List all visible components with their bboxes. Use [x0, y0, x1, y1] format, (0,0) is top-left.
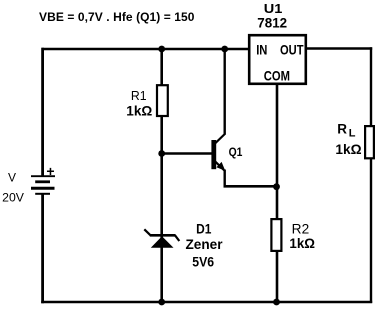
- wire right rail upper: [370, 47, 372, 126]
- wire OUT to right rail: [307, 47, 372, 49]
- node junction top R1: [158, 46, 165, 53]
- transistor Q1: [211, 134, 225, 172]
- wire left rail upper: [41, 48, 44, 176]
- wire R1 branch upper: [160, 49, 163, 85]
- wire R1 to zener to bottom: [160, 116, 163, 302]
- svg-text:OUT: OUT: [280, 42, 304, 57]
- svg-text:Q1: Q1: [229, 145, 243, 159]
- svg-text:V: V: [8, 171, 16, 185]
- node junction emitter-COM: [273, 183, 280, 190]
- svg-text:1kΩ: 1kΩ: [335, 142, 361, 157]
- svg-text:1kΩ: 1kΩ: [126, 103, 152, 118]
- wire bottom rail: [41, 301, 372, 304]
- wire right rail lower: [370, 158, 372, 303]
- svg-text:20V: 20V: [2, 190, 24, 204]
- svg-text:Zener: Zener: [186, 237, 224, 252]
- resistor RL: [365, 126, 374, 158]
- battery V: [31, 176, 55, 194]
- svg-text:1kΩ: 1kΩ: [289, 236, 315, 251]
- svg-text:R2: R2: [292, 221, 310, 236]
- wire base of Q1: [162, 152, 212, 155]
- diode D1 zener: [144, 229, 179, 247]
- svg-text:IN: IN: [256, 42, 267, 57]
- resistor R1: [157, 85, 168, 116]
- wire emitter to COM: [224, 185, 278, 188]
- wire collector branch: [223, 49, 225, 135]
- svg-text:R1: R1: [131, 88, 147, 103]
- op-amp U1 regulator box: [249, 35, 306, 84]
- node junction top collector: [221, 46, 228, 53]
- wire emitter vertical: [223, 170, 225, 187]
- resistor R2: [271, 219, 281, 251]
- svg-text:D1: D1: [196, 222, 212, 237]
- node junction bottom zener: [158, 299, 165, 306]
- node junction base: [158, 150, 165, 157]
- svg-text:VBE = 0,7V . Hfe (Q1) = 150: VBE = 0,7V . Hfe (Q1) = 150: [39, 10, 195, 24]
- svg-text:COM: COM: [264, 69, 290, 84]
- wire COM branch upper: [276, 85, 279, 219]
- node junction bottom R2: [273, 299, 280, 306]
- wire top rail: [42, 48, 250, 51]
- svg-text:7812: 7812: [257, 16, 287, 31]
- wire COM branch lower: [276, 251, 279, 302]
- wire left rail lower: [41, 194, 44, 303]
- svg-text:+: +: [46, 163, 54, 179]
- svg-text:5V6: 5V6: [192, 255, 214, 270]
- svg-text:U1: U1: [264, 1, 283, 16]
- svg-text:L: L: [349, 128, 356, 140]
- svg-text:R: R: [337, 122, 347, 137]
